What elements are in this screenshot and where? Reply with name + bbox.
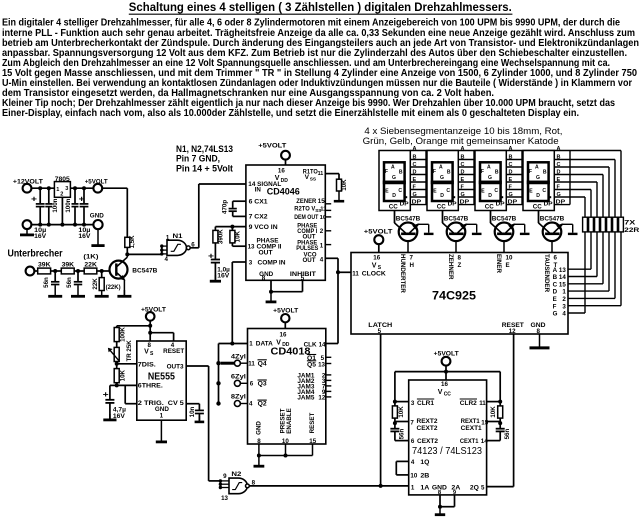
svg-text:CC: CC — [389, 205, 399, 211]
svg-text:13: 13 — [318, 361, 325, 368]
svg-text:3: 3 — [411, 400, 415, 407]
svg-text:E: E — [506, 262, 510, 269]
svg-text:SS: SS — [310, 177, 317, 183]
svg-text:+: + — [79, 194, 85, 204]
svg-text:CLK: CLK — [304, 341, 318, 348]
svg-text:DD: DD — [281, 178, 289, 184]
svg-text:4: 4 — [165, 256, 169, 263]
svg-text:DP: DP — [412, 200, 422, 206]
svg-text:RESET: RESET — [163, 348, 184, 355]
svg-text:10: 10 — [282, 438, 289, 445]
svg-text:B: B — [461, 155, 465, 161]
svg-text:22K: 22K — [92, 278, 99, 290]
svg-text:CC: CC — [533, 205, 543, 211]
svg-text:14: 14 — [319, 341, 326, 348]
svg-text:1,5K: 1,5K — [129, 235, 136, 249]
svg-text:3: 3 — [65, 186, 68, 192]
svg-text:H: H — [410, 262, 415, 269]
svg-text:G: G — [461, 192, 465, 198]
svg-text:EINER: EINER — [495, 254, 502, 273]
svg-text:BC547B: BC547B — [132, 268, 157, 275]
svg-text:CV 5: CV 5 — [168, 400, 185, 407]
svg-text:F: F — [433, 169, 436, 175]
svg-text:RESET: RESET — [309, 412, 316, 433]
svg-text:E: E — [385, 188, 389, 194]
svg-text:C: C — [446, 188, 450, 194]
svg-text:16V: 16V — [113, 413, 126, 420]
svg-text:Q3: Q3 — [258, 381, 268, 388]
svg-text:B: B — [399, 169, 403, 175]
svg-text:B: B — [495, 169, 499, 175]
svg-text:16: 16 — [441, 381, 448, 388]
svg-text:1: 1 — [56, 187, 59, 193]
svg-text:Pin 14 + 5Volt: Pin 14 + 5Volt — [176, 164, 233, 174]
svg-text:DP: DP — [400, 202, 409, 208]
svg-text:G: G — [413, 192, 417, 198]
svg-text:10: 10 — [320, 215, 326, 221]
svg-text:D: D — [536, 193, 540, 199]
svg-text:C: C — [398, 188, 402, 194]
svg-text:56n: 56n — [43, 277, 50, 288]
svg-text:COMP IN: COMP IN — [258, 259, 287, 266]
svg-text:8: 8 — [537, 328, 541, 335]
svg-text:6: 6 — [250, 381, 254, 388]
svg-text:Pin 7 GND,: Pin 7 GND, — [176, 154, 220, 164]
svg-text:15: 15 — [318, 198, 325, 205]
svg-text:BC547B: BC547B — [396, 215, 421, 222]
svg-text:E: E — [553, 296, 557, 303]
svg-text:74C925: 74C925 — [432, 288, 476, 302]
svg-text:11: 11 — [352, 270, 359, 277]
svg-text:CC: CC — [485, 205, 495, 211]
svg-text:B: B — [413, 155, 417, 161]
svg-text:B: B — [557, 155, 561, 161]
svg-text:2: 2 — [60, 191, 63, 197]
svg-text:22K: 22K — [84, 262, 97, 269]
svg-text:4 x Siebensegmentanzeige 10 bi: 4 x Siebensegmentanzeige 10 bis 18mm, Ro… — [364, 126, 562, 136]
svg-text:13: 13 — [559, 267, 566, 274]
svg-text:4: 4 — [562, 311, 566, 318]
svg-text:11: 11 — [318, 171, 324, 177]
svg-text:Q2: Q2 — [258, 401, 268, 408]
svg-text:N1, N2,74LS13: N1, N2,74LS13 — [176, 144, 233, 154]
svg-text:REXT2: REXT2 — [417, 418, 439, 425]
svg-text:IN: IN — [255, 187, 262, 194]
svg-text:11: 11 — [479, 400, 486, 407]
svg-text:ZENER: ZENER — [296, 198, 316, 205]
svg-text:DP: DP — [508, 200, 518, 206]
svg-text:8Zyl: 8Zyl — [231, 394, 246, 401]
svg-text:11: 11 — [320, 207, 327, 213]
svg-text:9: 9 — [223, 473, 227, 480]
svg-text:22R: 22R — [624, 227, 640, 234]
svg-text:DATA: DATA — [256, 341, 274, 348]
svg-text:7X: 7X — [624, 219, 636, 226]
svg-text:D: D — [557, 170, 561, 176]
svg-text:E: E — [529, 188, 533, 194]
svg-text:D: D — [553, 289, 558, 296]
svg-text:CEXT2: CEXT2 — [417, 438, 439, 445]
svg-text:TAUSENDER: TAUSENDER — [543, 254, 550, 293]
svg-text:(1K): (1K) — [83, 254, 98, 261]
svg-text:12: 12 — [509, 328, 516, 335]
svg-text:BC547B: BC547B — [444, 215, 469, 222]
svg-text:1: 1 — [320, 242, 324, 249]
svg-text:G: G — [536, 175, 540, 181]
svg-text:ZEHNER: ZEHNER — [447, 254, 454, 280]
svg-text:1: 1 — [166, 234, 170, 241]
svg-text:3: 3 — [562, 303, 566, 310]
svg-text:D: D — [509, 170, 513, 176]
svg-text:A: A — [553, 267, 558, 274]
svg-text:V: V — [276, 339, 281, 346]
svg-text:A: A — [557, 146, 561, 152]
svg-text:CC: CC — [437, 205, 447, 211]
svg-text:F: F — [481, 169, 484, 175]
svg-text:7 CX2: 7 CX2 — [249, 214, 269, 221]
svg-text:100n: 100n — [65, 198, 72, 212]
svg-text:5: 5 — [481, 485, 485, 492]
svg-text:16V: 16V — [78, 233, 91, 240]
svg-text:C: C — [509, 162, 513, 168]
svg-text:D: D — [440, 193, 444, 199]
svg-text:2B: 2B — [420, 473, 430, 480]
svg-text:C: C — [542, 188, 546, 194]
svg-text:A: A — [535, 165, 539, 171]
svg-text:G: G — [509, 192, 513, 198]
svg-text:+: + — [103, 389, 109, 399]
svg-text:7: 7 — [410, 255, 414, 262]
svg-text:100n: 100n — [52, 198, 59, 212]
svg-text:1Q: 1Q — [420, 459, 429, 466]
svg-text:9 VCO IN: 9 VCO IN — [249, 224, 279, 231]
svg-text:100K: 100K — [119, 327, 126, 342]
svg-text:2Q: 2Q — [470, 485, 479, 492]
svg-text:DP: DP — [556, 200, 566, 206]
svg-text:6Zyl: 6Zyl — [231, 373, 246, 380]
svg-text:7DIS.: 7DIS. — [138, 361, 156, 368]
svg-text:G: G — [557, 192, 561, 198]
svg-text:DP: DP — [448, 202, 457, 208]
svg-text:6: 6 — [411, 438, 415, 445]
svg-text:CLOCK: CLOCK — [362, 270, 387, 277]
svg-text:E: E — [481, 188, 485, 194]
svg-text:16: 16 — [373, 255, 380, 262]
svg-text:D: D — [413, 170, 417, 176]
svg-text:8: 8 — [257, 438, 261, 445]
svg-text:39K: 39K — [62, 262, 75, 269]
svg-text:TR 25K: TR 25K — [126, 340, 133, 362]
svg-text:74123 / 74LS123: 74123 / 74LS123 — [412, 446, 482, 457]
svg-text:DP: DP — [544, 202, 553, 208]
svg-text:1A: 1A — [420, 485, 430, 492]
svg-text:10: 10 — [506, 255, 513, 262]
svg-text:GND: GND — [90, 213, 104, 220]
svg-text:HUNDERTER: HUNDERTER — [399, 254, 406, 293]
svg-text:E: E — [509, 177, 513, 183]
svg-text:E: E — [413, 177, 417, 183]
svg-text:7: 7 — [410, 419, 414, 426]
svg-text:4Zyl: 4Zyl — [231, 353, 246, 360]
svg-text:12: 12 — [318, 395, 325, 402]
svg-text:E: E — [433, 188, 437, 194]
svg-text:1: 1 — [160, 413, 164, 420]
svg-text:2: 2 — [562, 296, 566, 303]
svg-text:13: 13 — [248, 244, 255, 251]
svg-text:B: B — [543, 169, 547, 175]
svg-text:A: A — [509, 146, 513, 152]
svg-text:16V: 16V — [34, 233, 47, 240]
svg-text:B: B — [509, 155, 513, 161]
svg-text:4: 4 — [320, 256, 324, 263]
svg-text:390K: 390K — [217, 229, 224, 244]
svg-text:BC547B: BC547B — [540, 215, 565, 222]
svg-text:14: 14 — [559, 274, 566, 281]
svg-text:ENABLE: ENABLE — [286, 408, 293, 433]
svg-text:G: G — [440, 175, 444, 181]
svg-text:56n: 56n — [399, 429, 406, 440]
svg-text:15: 15 — [559, 281, 566, 288]
svg-text:V: V — [144, 349, 149, 356]
svg-text:D: D — [392, 193, 396, 199]
svg-text:56n: 56n — [66, 277, 73, 288]
svg-text:1: 1 — [249, 341, 253, 348]
svg-text:Einer-Display, einfach nach vo: Einer-Display, einfach nach vom, also al… — [2, 108, 579, 119]
svg-text:10K: 10K — [398, 406, 405, 418]
svg-text:N2: N2 — [231, 471, 241, 478]
svg-text:10K: 10K — [490, 406, 497, 418]
svg-text:8: 8 — [262, 275, 266, 282]
svg-text:2: 2 — [320, 228, 324, 235]
svg-text:A: A — [439, 165, 443, 171]
svg-text:CEXT1: CEXT1 — [460, 438, 479, 445]
svg-text:CEXT1: CEXT1 — [461, 425, 483, 432]
svg-text:B: B — [553, 274, 558, 281]
svg-text:10K: 10K — [234, 230, 241, 242]
svg-text:4: 4 — [249, 401, 253, 408]
svg-text:56n: 56n — [504, 429, 511, 440]
svg-text:D: D — [488, 193, 492, 199]
svg-text:3: 3 — [249, 259, 253, 266]
svg-text:CEXT2: CEXT2 — [417, 425, 439, 432]
svg-text:16: 16 — [278, 167, 285, 174]
svg-text:6: 6 — [554, 255, 558, 262]
svg-text:16V: 16V — [217, 273, 230, 280]
svg-text:G: G — [553, 311, 558, 318]
svg-text:15: 15 — [481, 419, 488, 426]
svg-text:A: A — [391, 165, 395, 171]
svg-text:4: 4 — [411, 459, 415, 466]
svg-text:F: F — [529, 169, 532, 175]
svg-text:A: A — [487, 165, 491, 171]
svg-text:JAM5: JAM5 — [297, 395, 315, 402]
svg-text:OUT: OUT — [303, 257, 316, 264]
svg-text:D: D — [461, 170, 465, 176]
svg-text:C: C — [461, 162, 465, 168]
svg-text:16: 16 — [280, 331, 287, 338]
svg-text:G: G — [488, 175, 492, 181]
svg-text:CLR1: CLR1 — [417, 400, 435, 407]
svg-text:A: A — [413, 146, 417, 152]
svg-text:+: + — [31, 194, 37, 204]
svg-text:N1: N1 — [173, 233, 183, 240]
svg-text:6 CX1: 6 CX1 — [249, 198, 269, 205]
svg-text:GND: GND — [255, 421, 262, 435]
svg-text:Z: Z — [458, 262, 462, 269]
svg-text:39K: 39K — [38, 262, 51, 269]
svg-text:C: C — [553, 281, 558, 288]
svg-text:Grün, Gelb, Orange mit gemei: Grün, Gelb, Orange mit gemeinsamer Katod… — [363, 136, 559, 146]
svg-text:F: F — [385, 169, 388, 175]
svg-text:470p: 470p — [221, 200, 228, 214]
svg-text:CC: CC — [444, 392, 452, 398]
svg-text:8: 8 — [458, 255, 462, 262]
svg-text:E: E — [461, 177, 465, 183]
svg-text:CD4046: CD4046 — [267, 185, 300, 196]
svg-text:7805: 7805 — [55, 176, 70, 183]
svg-text:14: 14 — [481, 438, 488, 445]
svg-text:DEM OUT: DEM OUT — [294, 214, 318, 221]
svg-text:R2TO V: R2TO V — [294, 206, 316, 213]
svg-text:NE555: NE555 — [148, 371, 175, 383]
svg-text:CLR2: CLR2 — [460, 400, 478, 407]
svg-text:C: C — [557, 162, 561, 168]
svg-text:(22K): (22K) — [106, 284, 121, 291]
svg-text:11: 11 — [248, 360, 255, 367]
svg-text:OUT3: OUT3 — [167, 363, 185, 370]
svg-text:+5VOLT: +5VOLT — [258, 143, 286, 150]
svg-text:10K: 10K — [119, 369, 126, 381]
svg-text:OUT: OUT — [259, 250, 273, 257]
svg-text:DP: DP — [496, 202, 505, 208]
svg-text:15: 15 — [309, 438, 316, 445]
svg-text:DP: DP — [460, 200, 470, 206]
svg-text:5: 5 — [378, 328, 382, 335]
svg-text:V: V — [438, 389, 443, 396]
svg-text:13: 13 — [221, 495, 228, 502]
svg-text:C: C — [494, 188, 498, 194]
svg-text:B: B — [447, 169, 451, 175]
svg-text:Schaltung eines 4 stelligen (: Schaltung eines 4 stelligen ( 3 Zählstel… — [129, 1, 512, 14]
svg-text:Q5: Q5 — [307, 361, 317, 368]
svg-text:10: 10 — [410, 473, 417, 480]
svg-text:10K: 10K — [341, 179, 348, 191]
svg-text:G: G — [392, 175, 396, 181]
svg-text:10n: 10n — [189, 406, 196, 417]
svg-text:Unterbrecher: Unterbrecher — [8, 249, 63, 260]
svg-text:REXT1: REXT1 — [461, 418, 481, 425]
svg-text:E: E — [557, 177, 561, 183]
svg-text:V: V — [372, 262, 377, 269]
svg-text:C: C — [413, 162, 417, 168]
svg-text:6THRE.: 6THRE. — [138, 383, 163, 390]
svg-text:1: 1 — [562, 289, 566, 296]
svg-text:BC547B: BC547B — [492, 215, 517, 222]
svg-text:F: F — [553, 303, 557, 310]
svg-text:A: A — [461, 146, 465, 152]
svg-text:Q4: Q4 — [258, 360, 268, 367]
svg-text:1: 1 — [411, 485, 415, 492]
